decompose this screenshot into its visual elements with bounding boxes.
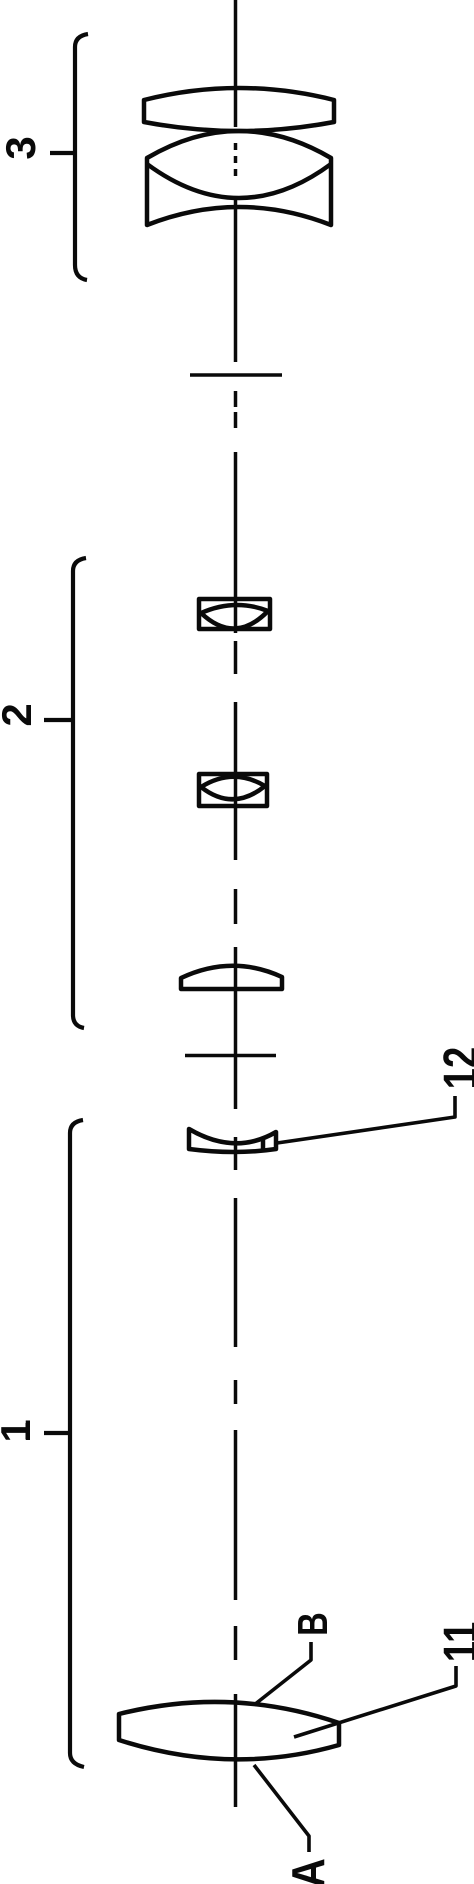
- svg-text:3: 3: [0, 136, 44, 159]
- svg-text:1: 1: [0, 1419, 39, 1442]
- svg-text:12: 12: [435, 1047, 474, 1090]
- svg-text:2: 2: [0, 703, 40, 726]
- svg-text:B: B: [289, 1612, 336, 1636]
- svg-text:A: A: [283, 1858, 335, 1884]
- svg-text:11: 11: [435, 1622, 474, 1663]
